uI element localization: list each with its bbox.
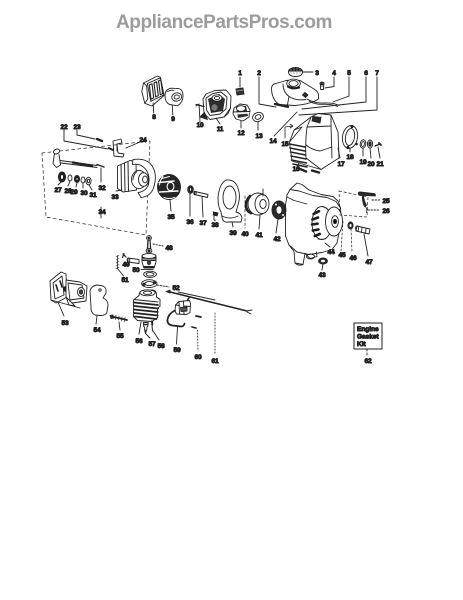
label 8 leader bbox=[152, 103, 155, 113]
washer 27 bbox=[58, 172, 65, 182]
svg-text:21: 21 bbox=[377, 161, 384, 168]
piston 49-50 group bbox=[142, 254, 156, 268]
grommet 19 bbox=[360, 139, 367, 148]
crankcase assembly 44 bbox=[286, 183, 342, 265]
label 39 leader bbox=[232, 222, 233, 227]
piston pin 50 bbox=[127, 258, 139, 264]
spark plug 57 bbox=[143, 323, 148, 334]
label 45 leader bbox=[341, 221, 343, 251]
svg-text:20: 20 bbox=[368, 161, 375, 168]
label 3 leader bbox=[303, 71, 313, 73]
svg-text:25: 25 bbox=[383, 198, 390, 205]
svg-text:Gasket: Gasket bbox=[357, 334, 380, 341]
screw 21 bbox=[375, 143, 381, 146]
svg-text:34: 34 bbox=[99, 209, 106, 216]
label 9 leader bbox=[171, 106, 174, 116]
label 32 leader bbox=[100, 168, 102, 182]
svg-text:19: 19 bbox=[360, 159, 367, 166]
svg-text:5: 5 bbox=[347, 70, 351, 77]
label 1 leader bbox=[239, 77, 241, 87]
svg-text:3: 3 bbox=[315, 70, 319, 77]
bolt 55 bbox=[110, 315, 127, 322]
washer 30 bbox=[81, 177, 85, 183]
svg-text:60: 60 bbox=[195, 354, 202, 361]
flywheel rotor bbox=[312, 207, 332, 240]
svg-text:9: 9 bbox=[171, 116, 175, 123]
fuel tank 14 bbox=[272, 79, 319, 107]
svg-text:12: 12 bbox=[238, 130, 245, 137]
svg-text:7: 7 bbox=[375, 70, 379, 77]
svg-text:AppliancePartsPros.com: AppliancePartsPros.com bbox=[116, 12, 332, 33]
svg-text:37: 37 bbox=[200, 220, 207, 227]
label 61 leader bbox=[214, 313, 216, 355]
starter rope 26 bbox=[366, 207, 367, 213]
label 16 leader bbox=[297, 163, 299, 166]
label 38 leader bbox=[214, 220, 216, 221]
washer 46 bbox=[348, 222, 353, 229]
svg-text:24: 24 bbox=[140, 137, 147, 144]
svg-text:41: 41 bbox=[256, 232, 263, 239]
label 18 leader bbox=[349, 149, 351, 152]
svg-text:30: 30 bbox=[81, 190, 88, 197]
label 17 leader bbox=[338, 148, 340, 158]
svg-text:44: 44 bbox=[328, 249, 335, 256]
svg-text:Engine: Engine bbox=[357, 326, 379, 333]
starter pulley 45 bbox=[326, 207, 343, 236]
label 11 leader bbox=[216, 118, 220, 124]
retainer 49 bbox=[116, 256, 119, 269]
label 41 leader bbox=[259, 215, 260, 229]
crank half 41 bbox=[246, 189, 269, 215]
label 5 leader bbox=[333, 77, 349, 102]
label 33 leader bbox=[116, 190, 122, 191]
label 58 leader bbox=[153, 331, 159, 340]
svg-text:14: 14 bbox=[270, 138, 277, 145]
svg-text:57: 57 bbox=[149, 341, 156, 348]
grommet 20 bbox=[367, 140, 372, 148]
clutch housing 33 bbox=[118, 159, 156, 197]
svg-text:32: 32 bbox=[99, 185, 106, 192]
screw 23 part bbox=[97, 139, 102, 141]
washer 28 bbox=[68, 175, 72, 181]
clutch 35 bbox=[158, 175, 181, 200]
svg-text:53: 53 bbox=[62, 320, 69, 327]
label 62 leader bbox=[366, 349, 368, 355]
svg-text:50: 50 bbox=[133, 267, 140, 274]
svg-text:46: 46 bbox=[350, 255, 357, 262]
svg-text:42: 42 bbox=[274, 236, 281, 243]
gasket 52 bbox=[142, 280, 157, 288]
fuel cap 3 bbox=[289, 68, 303, 77]
svg-text:15: 15 bbox=[282, 141, 289, 148]
svg-text:45: 45 bbox=[339, 252, 346, 259]
label 40 leader bbox=[244, 196, 246, 228]
label 7 leader bbox=[299, 77, 377, 115]
svg-text:6: 6 bbox=[364, 70, 368, 77]
label 29 leader bbox=[76, 183, 77, 187]
bracket 24 bbox=[113, 139, 124, 157]
washer 31 bbox=[86, 177, 91, 185]
svg-text:51: 51 bbox=[122, 277, 129, 284]
label 56 leader bbox=[139, 322, 141, 334]
washer 29 bbox=[74, 175, 79, 182]
label 37 leader bbox=[202, 197, 203, 217]
svg-text:48: 48 bbox=[166, 245, 173, 252]
label 47 leader bbox=[364, 234, 368, 256]
svg-text:36: 36 bbox=[187, 219, 194, 226]
label 25 leader bbox=[372, 199, 380, 201]
label 20 leader bbox=[370, 148, 371, 158]
nut 1 bbox=[236, 88, 244, 95]
label 42 leader bbox=[276, 219, 278, 233]
label 22 leader bbox=[64, 130, 108, 149]
label 36 leader bbox=[189, 193, 191, 216]
label 59 leader bbox=[177, 327, 178, 344]
svg-text:Kit: Kit bbox=[357, 341, 367, 348]
svg-text:2: 2 bbox=[257, 70, 261, 77]
label 55 leader bbox=[119, 322, 120, 330]
bearing 42 bbox=[272, 201, 286, 219]
label 28 leader bbox=[68, 181, 70, 186]
muffler 53 bbox=[50, 272, 87, 306]
label 51 leader bbox=[118, 269, 124, 277]
label 35 leader bbox=[170, 200, 171, 211]
svg-text:54: 54 bbox=[94, 327, 101, 334]
label 19 leader bbox=[362, 148, 364, 156]
throttle cable 61 bbox=[166, 290, 252, 314]
ignition coil 59 bbox=[167, 298, 190, 327]
svg-text:13: 13 bbox=[256, 133, 263, 140]
svg-text:55: 55 bbox=[117, 333, 124, 340]
dashed box starter bbox=[339, 191, 368, 217]
label 23 leader bbox=[77, 130, 95, 139]
label 30 leader bbox=[82, 183, 84, 188]
washer 36 bbox=[188, 186, 194, 194]
svg-text:16: 16 bbox=[293, 166, 300, 173]
label 2 leader bbox=[259, 77, 276, 107]
engine gasket kit box 62 bbox=[354, 323, 382, 349]
muffler gasket 54 bbox=[90, 285, 108, 316]
svg-text:27: 27 bbox=[55, 187, 62, 194]
label 12 leader bbox=[240, 121, 242, 128]
svg-text:39: 39 bbox=[230, 230, 237, 237]
backing plate 18 bbox=[341, 124, 359, 149]
fuel line bbox=[307, 99, 339, 107]
label 48 leader bbox=[153, 244, 163, 246]
svg-text:8: 8 bbox=[152, 114, 156, 121]
clip 38 bbox=[213, 212, 218, 220]
label 27 leader bbox=[58, 182, 61, 185]
svg-text:40: 40 bbox=[242, 231, 249, 238]
carburetor pump 12 bbox=[233, 104, 250, 121]
svg-text:47: 47 bbox=[366, 259, 373, 266]
label 43 leader bbox=[322, 264, 323, 270]
label 14 leader bbox=[274, 112, 297, 136]
svg-text:10: 10 bbox=[197, 122, 204, 129]
air filter cover 8 bbox=[142, 76, 164, 106]
gasket 13 bbox=[251, 111, 264, 123]
label 24 leader bbox=[126, 142, 140, 148]
svg-text:33: 33 bbox=[112, 194, 119, 201]
svg-text:22: 22 bbox=[61, 124, 68, 131]
label 10 leader bbox=[196, 104, 200, 122]
label 52 leader bbox=[157, 285, 169, 287]
dashed box 34 bbox=[42, 141, 150, 235]
svg-text:52: 52 bbox=[173, 285, 180, 292]
svg-text:49: 49 bbox=[123, 262, 130, 269]
label 46 leader bbox=[351, 229, 352, 252]
svg-text:26: 26 bbox=[383, 208, 390, 215]
connecting rod 48 bbox=[146, 236, 152, 254]
label 4 leader bbox=[325, 77, 334, 88]
svg-text:31: 31 bbox=[90, 192, 97, 199]
svg-text:11: 11 bbox=[217, 126, 224, 133]
bolt 60 bbox=[192, 316, 201, 328]
svg-text:29: 29 bbox=[71, 189, 78, 196]
label 60 leader bbox=[197, 330, 200, 351]
label 15 leader bbox=[285, 124, 293, 138]
throttle shaft 32 bbox=[53, 148, 104, 167]
label 21 leader bbox=[378, 147, 380, 158]
label 6 leader bbox=[302, 77, 366, 109]
header logo text bbox=[116, 12, 332, 33]
svg-text:18: 18 bbox=[347, 154, 354, 161]
label 34 leader bbox=[100, 207, 102, 218]
fuel filter 4 bbox=[320, 82, 324, 89]
engine shroud 16 bbox=[290, 114, 340, 173]
label 44 leader bbox=[325, 243, 330, 247]
clip 49 bbox=[123, 254, 127, 258]
svg-text:1: 1 bbox=[238, 70, 242, 77]
pin 37 bbox=[194, 191, 208, 197]
label 54 leader bbox=[96, 316, 97, 324]
svg-text:17: 17 bbox=[338, 161, 345, 168]
svg-text:43: 43 bbox=[319, 272, 326, 279]
label 31 leader bbox=[89, 185, 92, 190]
crankcase half 39 bbox=[218, 180, 242, 222]
grommet 43 bbox=[319, 258, 328, 264]
cylinder 56 bbox=[134, 290, 161, 322]
svg-text:58: 58 bbox=[158, 343, 165, 350]
air filter element 9 bbox=[165, 88, 183, 106]
svg-text:61: 61 bbox=[212, 358, 219, 365]
label 26 leader bbox=[368, 209, 380, 211]
label 53 leader bbox=[58, 302, 64, 316]
label 50 leader bbox=[141, 269, 153, 271]
svg-text:59: 59 bbox=[174, 347, 181, 354]
svg-text:23: 23 bbox=[74, 124, 81, 131]
svg-text:35: 35 bbox=[168, 214, 175, 221]
svg-text:38: 38 bbox=[212, 222, 219, 229]
svg-text:62: 62 bbox=[365, 358, 372, 365]
bolt 58 bbox=[152, 321, 153, 331]
label 57 leader bbox=[146, 334, 150, 338]
starter post 47 bbox=[356, 226, 371, 234]
svg-text:56: 56 bbox=[136, 338, 143, 345]
label 13 leader bbox=[257, 122, 259, 130]
muffler line bbox=[51, 300, 80, 308]
pin 22 part bbox=[109, 148, 113, 150]
starter handle 25 bbox=[358, 192, 375, 207]
piston ring 52a bbox=[144, 271, 157, 277]
carburetor 11 bbox=[196, 90, 231, 120]
svg-text:4: 4 bbox=[332, 70, 336, 77]
